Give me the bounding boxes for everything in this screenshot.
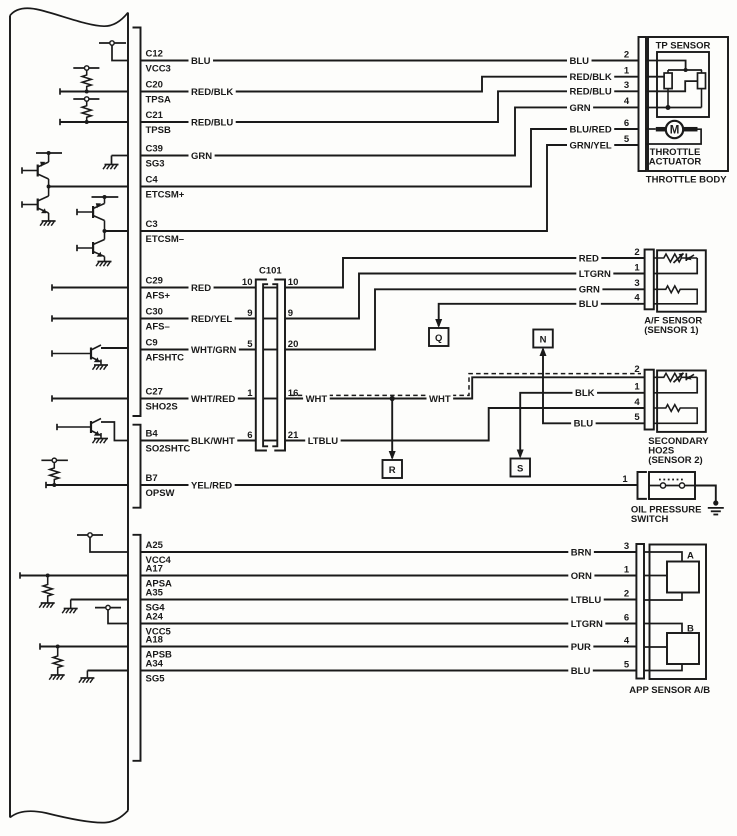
connector R (383, 460, 403, 478)
svg-text:S: S (517, 464, 523, 475)
wire C21 TPSB to throttle body pin 3 (141, 91, 639, 122)
svg-text:SHO2S: SHO2S (146, 402, 178, 413)
TP sensor pin 4 wire (646, 107, 702, 109)
TP sensor box (657, 52, 709, 117)
svg-text:5: 5 (624, 659, 630, 670)
svg-text:RED/YEL: RED/YEL (191, 314, 232, 325)
svg-text:6: 6 (624, 118, 629, 129)
OPSW internal pull-up resistor (41, 459, 68, 461)
AFS+ internal lead (51, 284, 53, 290)
svg-text:GRN: GRN (579, 285, 600, 296)
ETCSM+ output node (47, 185, 51, 189)
A/F sensor pin 1 loop (654, 258, 697, 274)
TP sensor left resistor (664, 73, 672, 89)
ECM body outline (torn vertical band) (9, 16, 11, 818)
svg-text:C3: C3 (146, 219, 158, 230)
svg-text:C9: C9 (146, 338, 158, 349)
HO2S element (zigzag with arrows) (654, 373, 697, 381)
svg-text:WHT: WHT (429, 394, 451, 405)
svg-text:SWITCH: SWITCH (631, 514, 669, 525)
svg-text:GRN: GRN (570, 103, 591, 114)
svg-text:5: 5 (634, 412, 640, 423)
svg-text:2: 2 (624, 588, 629, 599)
svg-text:WHT: WHT (306, 394, 328, 405)
wire C4 ETCSM+ to throttle body pin 6 (141, 129, 639, 187)
wire C20 TPSA to throttle body pin 1 (141, 77, 639, 92)
svg-text:C12: C12 (146, 49, 163, 60)
TP sensor right resistor (698, 73, 706, 89)
svg-text:AFS–: AFS– (146, 322, 170, 333)
svg-text:21: 21 (288, 430, 299, 441)
APSA internal pull-down resistor (19, 572, 21, 578)
svg-text:6: 6 (247, 430, 252, 441)
SO2SHTC driver transistor (56, 424, 58, 430)
svg-text:ORN: ORN (571, 571, 592, 582)
svg-text:4: 4 (634, 397, 640, 408)
wire WHT junction to connector R (391, 399, 393, 459)
svg-text:6: 6 (624, 612, 629, 623)
svg-text:9: 9 (247, 308, 252, 319)
wire B4 SO2SHTC through C101 pin 6/21 (141, 440, 256, 442)
VCC3 internal supply tap (99, 42, 126, 44)
ECM connector B bracket (133, 425, 141, 508)
svg-text:BLU: BLU (571, 666, 591, 677)
VCC4 internal supply tap (77, 534, 103, 536)
svg-text:LTBLU: LTBLU (308, 436, 339, 447)
throttle actuator pin 5 wire (646, 129, 701, 144)
svg-text:9: 9 (288, 308, 293, 319)
svg-text:B4: B4 (146, 429, 159, 440)
svg-text:ETCSM–: ETCSM– (146, 234, 185, 245)
svg-text:GRN: GRN (191, 151, 212, 162)
svg-text:GRN/YEL: GRN/YEL (570, 140, 612, 151)
svg-text:Q: Q (435, 333, 442, 344)
svg-text:C30: C30 (146, 307, 163, 318)
APP sensor connector strip (636, 544, 644, 679)
svg-text:A17: A17 (146, 564, 163, 575)
svg-text:A: A (687, 551, 694, 562)
TP sensor pin 3 wiper wire (646, 81, 698, 91)
svg-text:2: 2 (624, 49, 629, 60)
AFS- internal lead (51, 315, 53, 321)
throttle actuator motor (666, 121, 683, 138)
AFSHTC driver ground (94, 364, 108, 366)
wire RED C101 to A/F sensor pin 2 (285, 258, 645, 288)
wire BLU secondary HO2S pin 5 to connector N (543, 349, 645, 423)
ETCSM+ high-side transistor (21, 167, 23, 173)
svg-text:SO2SHTC: SO2SHTC (146, 444, 191, 455)
svg-text:1: 1 (624, 564, 630, 575)
wire C39 SG3 to throttle body pin 4 (141, 107, 639, 155)
svg-text:BRN: BRN (571, 547, 592, 558)
svg-text:C21: C21 (146, 110, 164, 121)
svg-text:1: 1 (624, 66, 630, 77)
secondary HO2S outline (657, 371, 706, 432)
oil pressure switch box (649, 472, 695, 499)
wire C30 AFS– through C101 pin 9/9 (141, 318, 256, 320)
svg-text:RED/BLU: RED/BLU (191, 117, 233, 128)
TPSB internal pull-up resistor (73, 98, 99, 100)
shield dashed line (SHO2S) (290, 374, 641, 396)
wire A17 APSA to APP sensor pin 1 (141, 575, 637, 577)
svg-text:TPSB: TPSB (146, 125, 171, 136)
ETCSM+ low-side transistor (21, 201, 23, 207)
svg-text:SG5: SG5 (146, 674, 166, 685)
svg-text:4: 4 (624, 96, 630, 107)
TP sensor pin 1 wire (646, 76, 664, 78)
svg-text:A25: A25 (146, 540, 164, 551)
svg-text:5: 5 (247, 339, 253, 350)
wire A35 SG4 to APP sensor pin 2 (141, 599, 637, 601)
svg-text:B7: B7 (146, 473, 158, 484)
wire WHT C101 to secondary HO2S pin 2 (285, 377, 645, 398)
svg-text:C27: C27 (146, 387, 163, 398)
oil pressure switch dotted line (659, 479, 685, 481)
ETCSM+ driver supply bar (36, 152, 62, 154)
A/F sensor element (zigzag with arrows) (654, 254, 697, 262)
svg-text:4: 4 (634, 293, 640, 304)
svg-text:BLU/RED: BLU/RED (570, 124, 612, 135)
svg-text:LTGRN: LTGRN (571, 619, 603, 630)
connector Q (429, 328, 449, 346)
wire A25 VCC4 to APP sensor pin 3 (141, 551, 637, 553)
svg-text:C29: C29 (146, 276, 163, 287)
svg-text:PUR: PUR (571, 642, 591, 653)
svg-text:N: N (540, 335, 547, 346)
APSB resistor ground (51, 674, 65, 676)
ETCSM- low-side transistor (76, 245, 78, 251)
svg-text:SG3: SG3 (146, 159, 165, 170)
ETCSM- driver supply bar (92, 196, 119, 198)
ECM connector C bracket (133, 28, 141, 417)
SG3 internal ground (112, 155, 129, 157)
svg-text:RED/BLK: RED/BLK (570, 72, 612, 83)
throttle body connector strip (639, 37, 647, 171)
svg-text:BLU: BLU (191, 56, 211, 67)
svg-text:C4: C4 (146, 175, 159, 186)
wire C3 ETCSM– to throttle body pin 5 (141, 145, 639, 231)
wire C12 VCC3 to throttle body pin 2 (141, 60, 639, 62)
svg-text:AFSHTC: AFSHTC (146, 353, 185, 364)
svg-text:BLU: BLU (579, 299, 599, 310)
svg-text:THROTTLE BODY: THROTTLE BODY (646, 174, 727, 185)
svg-text:10: 10 (288, 277, 299, 288)
svg-text:1: 1 (634, 382, 640, 393)
svg-text:2: 2 (634, 364, 639, 375)
APSB internal pull-down resistor (39, 643, 41, 649)
connector S (511, 459, 531, 477)
svg-text:1: 1 (247, 388, 253, 399)
A/F sensor connector strip (645, 250, 654, 310)
HO2S pin 1 loop (654, 377, 697, 393)
TPSA internal pull-up resistor (73, 67, 99, 69)
TP sensor pin 2 wire (646, 61, 686, 71)
svg-text:RED: RED (191, 283, 211, 294)
ETCSM- output node (103, 229, 107, 233)
svg-text:R: R (389, 465, 396, 476)
oil pressure switch earth ground (713, 500, 718, 505)
svg-text:OPSW: OPSW (146, 488, 175, 499)
APP sensor element A (667, 562, 699, 593)
oil pressure switch ground wire (695, 486, 716, 504)
svg-text:1: 1 (634, 262, 640, 273)
SG4 internal ground (71, 599, 128, 601)
wire A18 APSB to APP sensor pin 4 (141, 646, 637, 648)
wire C29 AFS+ through C101 pin 10/10 (141, 287, 256, 289)
svg-text:20: 20 (288, 339, 299, 350)
svg-text:RED/BLU: RED/BLU (570, 87, 612, 98)
svg-text:16: 16 (288, 388, 299, 399)
wire BLU A/F sensor pin 4 to connector Q (439, 304, 645, 326)
svg-text:A35: A35 (146, 588, 164, 599)
VCC5 internal supply tap (95, 607, 121, 609)
wire A24 VCC5 to APP sensor pin 6 (141, 623, 637, 625)
svg-text:3: 3 (634, 278, 639, 289)
svg-text:B: B (687, 624, 694, 635)
junction on WHT wire (390, 396, 395, 401)
svg-text:TP SENSOR: TP SENSOR (656, 41, 711, 52)
svg-text:ETCSM+: ETCSM+ (146, 190, 185, 201)
ETCSM+ driver ground (42, 220, 56, 222)
svg-text:LTGRN: LTGRN (579, 269, 611, 280)
svg-text:10: 10 (242, 277, 253, 288)
SHO2S internal lead (51, 395, 53, 401)
svg-text:(SENSOR 2): (SENSOR 2) (648, 455, 702, 466)
ETCSM- high-side transistor (76, 209, 78, 215)
svg-text:LTBLU: LTBLU (571, 595, 602, 606)
svg-text:WHT/GRN: WHT/GRN (191, 345, 237, 356)
APSA resistor ground (41, 602, 55, 604)
svg-text:3: 3 (624, 541, 629, 552)
svg-text:A24: A24 (146, 612, 164, 623)
SO2SHTC driver ground (94, 438, 108, 440)
HO2S heater resistor (654, 405, 697, 424)
svg-text:BLK/WHT: BLK/WHT (191, 436, 235, 447)
wire C9 AFSHTC through C101 pin 5/20 (141, 349, 256, 351)
svg-text:3: 3 (624, 80, 629, 91)
wire A34 SG5 to APP sensor pin 5 (141, 670, 637, 672)
svg-text:APP SENSOR A/B: APP SENSOR A/B (629, 685, 710, 696)
oil pressure switch bracket (638, 472, 647, 499)
svg-text:5: 5 (624, 134, 630, 145)
svg-text:A34: A34 (146, 659, 164, 670)
A/F sensor outline (657, 250, 706, 311)
APP sensor element B (667, 633, 699, 664)
svg-text:RED/BLK: RED/BLK (191, 87, 233, 98)
wire B7 OPSW YEL/RED to oil pressure switch pin 1 (141, 484, 638, 486)
oil pressure switch contacts (649, 485, 695, 487)
TP sensor top bar (668, 69, 702, 71)
svg-text:BLK: BLK (575, 388, 595, 399)
svg-text:1: 1 (622, 474, 628, 485)
svg-text:M: M (670, 125, 680, 137)
svg-text:BLU: BLU (574, 419, 594, 430)
APP sensor outline (650, 545, 707, 680)
svg-text:RED: RED (579, 253, 599, 264)
svg-text:4: 4 (624, 635, 630, 646)
wire LTBLU C101 to secondary HO2S pin 4 (285, 408, 645, 441)
ETCSM- driver ground (98, 261, 112, 263)
svg-text:VCC3: VCC3 (146, 64, 171, 75)
wire C27 SHO2S through C101 pin 1/16 (141, 398, 256, 400)
SG5 internal ground (87, 670, 128, 672)
secondary HO2S connector strip (645, 370, 654, 430)
svg-text:(SENSOR 1): (SENSOR 1) (644, 325, 698, 336)
svg-text:YEL/RED: YEL/RED (191, 480, 232, 491)
connector N (533, 330, 553, 348)
svg-text:C101: C101 (259, 266, 282, 277)
svg-text:C20: C20 (146, 80, 163, 91)
svg-text:ACTUATOR: ACTUATOR (649, 157, 702, 168)
wire BLK secondary HO2S pin 1 to connector S (520, 393, 644, 457)
AFSHTC driver transistor (51, 350, 53, 356)
throttle body outline (648, 37, 728, 171)
wire GRN C101 to A/F sensor pin 3 (285, 289, 645, 349)
svg-text:TPSA: TPSA (146, 95, 171, 106)
svg-text:A18: A18 (146, 635, 163, 646)
ECM connector A bracket (133, 535, 141, 761)
svg-text:2: 2 (634, 247, 639, 258)
A/F sensor heater resistor (654, 286, 697, 304)
svg-text:C39: C39 (146, 144, 163, 155)
svg-text:BLU: BLU (570, 56, 590, 67)
wire LTGRN C101 to A/F sensor pin 1 (285, 274, 645, 319)
svg-text:AFS+: AFS+ (146, 291, 171, 302)
svg-text:WHT/RED: WHT/RED (191, 394, 235, 405)
